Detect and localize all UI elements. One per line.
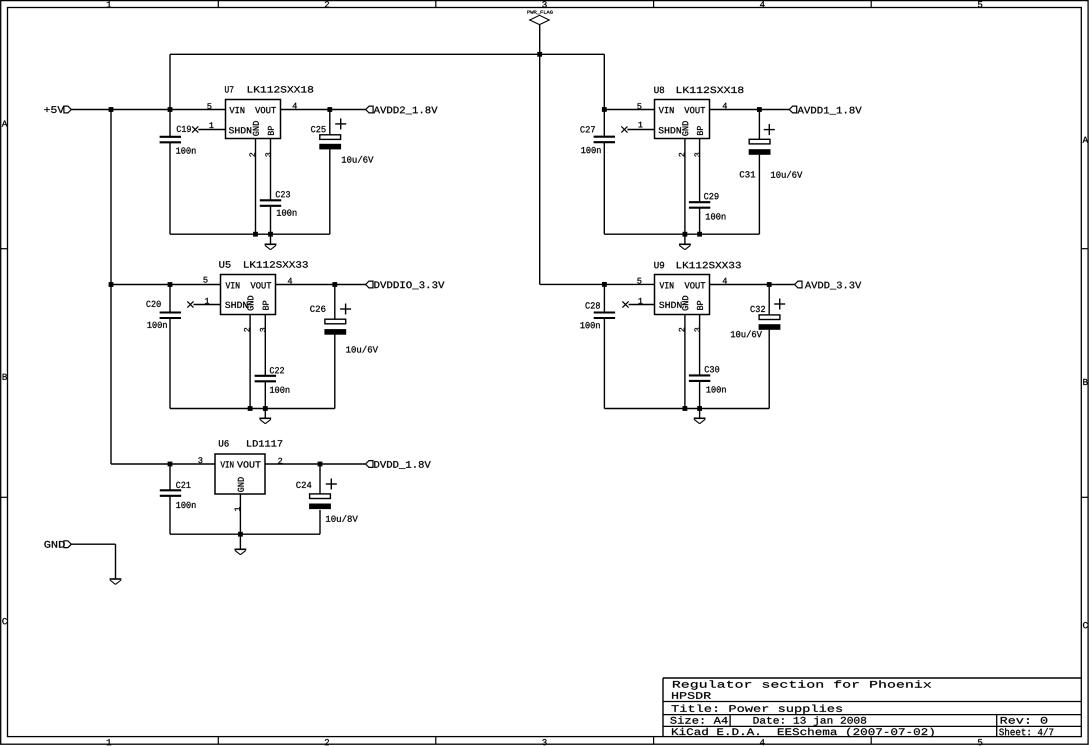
C19 reference label	[177, 126, 191, 132]
frame column numbers top	[107, 1, 983, 7]
C30 value label 100n	[706, 386, 725, 392]
pin 1 number U7	[209, 122, 213, 128]
frame row letters left	[2, 121, 8, 625]
wire top rail drop to U8	[603, 54, 605, 136]
capacitor C27	[594, 137, 615, 143]
C27 value label 100n	[581, 147, 600, 153]
ground U6	[235, 534, 247, 555]
wire PWR_FLAG drop to U9 rail	[539, 54, 541, 284]
pin 2 number U8	[679, 153, 685, 157]
pin 2 number U7	[249, 153, 255, 157]
wire U7 VOUT to AVDD2 label	[281, 109, 366, 111]
capacitor C31 (polarized)	[749, 139, 771, 155]
pin 3 number U8	[694, 153, 700, 157]
regulator U7 LK112SXX18	[226, 100, 281, 139]
C24 plus mark	[326, 479, 337, 490]
C32 reference label	[751, 306, 766, 312]
junction	[683, 232, 688, 237]
junction	[697, 232, 702, 237]
ground GND net	[110, 579, 122, 584]
ground U9	[694, 409, 706, 424]
wire U9 VOUT to AVDD label	[710, 284, 795, 286]
ground U5	[259, 409, 271, 424]
junction	[263, 406, 268, 411]
junction	[168, 462, 173, 467]
wire C30 to ground rail	[699, 381, 701, 409]
pin 4 number U5	[288, 278, 292, 284]
net label DVDD_1.8V	[366, 461, 431, 469]
wire U5 ground rail	[170, 408, 335, 410]
wire left vertical bus	[110, 110, 112, 465]
no-connect X U9 pin1	[622, 301, 628, 307]
C29 value label 100n	[706, 213, 726, 219]
C31 value label 10u/6V	[771, 171, 802, 178]
capacitor C30	[689, 375, 710, 381]
pin 5 number U8	[637, 103, 641, 109]
pin 5 number U7	[207, 103, 211, 109]
pin 4 number U9	[723, 278, 727, 284]
title block rev text	[1001, 717, 1048, 724]
frame row ticks right	[1081, 249, 1088, 498]
C25 value label 10u/6V	[342, 156, 374, 163]
C31 plus mark	[764, 124, 775, 135]
C26 reference label	[310, 306, 325, 312]
pin 5 number U9	[637, 278, 641, 284]
ground U7	[265, 234, 277, 250]
frame column ticks bottom	[218, 737, 871, 745]
wire U7 SHDN pin	[198, 129, 225, 131]
C25 plus mark	[335, 118, 346, 129]
wire U9 rail junction to C28	[603, 284, 605, 312]
U6 reference label	[219, 440, 229, 447]
regulator U8 LK112SXX18	[655, 100, 710, 139]
C20 value label 100n	[147, 322, 166, 328]
junction	[767, 282, 772, 287]
wire C25 to ground rail	[329, 149, 331, 234]
wire C27 to ground rail	[603, 142, 605, 234]
net label DVDDIO_3.3V	[366, 281, 445, 289]
junction	[268, 232, 273, 237]
C26 plus mark	[340, 304, 351, 315]
U5 reference label	[219, 261, 230, 267]
wire VOUT junction to C31	[758, 110, 760, 140]
U7 value label LK112SXX18	[248, 86, 313, 93]
title block frame	[663, 678, 1081, 737]
regulator U6 LD1117	[215, 454, 265, 494]
pin 3 number U6	[198, 457, 202, 463]
C28 reference label	[586, 302, 600, 308]
capacitor C21	[160, 490, 181, 496]
wire U9 GND pin down	[684, 315, 686, 409]
pin 4 number U8	[723, 103, 727, 109]
no-connect X U8 pin1	[621, 126, 627, 132]
wire U7 GND pin down	[255, 139, 257, 235]
power flag PWR_FLAG	[527, 11, 552, 55]
junction	[168, 107, 173, 112]
junction	[168, 282, 173, 287]
pin 2 number U5	[244, 328, 250, 332]
capacitor C23	[260, 200, 281, 206]
U9 value label LK112SXX33	[677, 262, 741, 269]
pin 2 number U6	[278, 458, 282, 464]
U8 value label LK112SXX18	[677, 87, 744, 94]
C21 reference label	[176, 482, 190, 488]
wire C28 to ground rail	[603, 318, 605, 409]
title block kicad text	[672, 728, 934, 737]
C26 value label 10u/6V	[346, 346, 378, 353]
U6 value label LD1117	[247, 440, 282, 446]
wire U6 rail	[111, 463, 215, 465]
wire U7 ground rail	[170, 233, 330, 235]
no-connect X U5 pin1	[187, 301, 193, 307]
wire C32 to ground rail	[768, 330, 770, 409]
wire U5 rail	[111, 284, 221, 286]
U8 reference label	[654, 87, 664, 94]
wire U8 SHDN pin	[627, 129, 654, 131]
wire C23 to ground rail	[270, 206, 272, 234]
C20 reference label	[146, 301, 160, 307]
wire U6 ground rail	[170, 533, 320, 535]
pin 3 number U5	[260, 328, 266, 332]
wire U5 GND pin down	[249, 315, 251, 409]
wire U5 BP pin to C22	[264, 315, 266, 376]
wire C29 to ground rail	[699, 208, 701, 235]
junction	[697, 406, 702, 411]
net label AVDD2_1.8V	[366, 106, 438, 114]
capacitor C24 (polarized)	[309, 494, 331, 509]
C22 value label 100n	[270, 387, 289, 393]
frame column numbers bottom	[107, 739, 983, 745]
regulator U5 LK112SXX33	[221, 275, 276, 315]
frame row ticks left	[1, 249, 8, 498]
C25 reference label	[311, 126, 326, 132]
title block size text	[670, 716, 727, 723]
junction	[537, 52, 542, 57]
junction	[757, 107, 762, 112]
wire C20 to ground rail	[169, 318, 171, 409]
C22 reference label	[270, 367, 284, 373]
U7 reference label	[225, 86, 233, 92]
net label AVDD1_1.8V	[789, 106, 861, 114]
pin 1 number U6	[235, 507, 240, 511]
wire C19 to ground rail	[169, 142, 171, 234]
C30 reference label	[705, 366, 720, 372]
title block sheet text	[999, 728, 1053, 735]
C23 reference label	[276, 191, 290, 197]
junction	[327, 107, 332, 112]
wire U5 VOUT to DVDDIO label	[276, 284, 366, 286]
wire C31 to ground rail	[758, 155, 760, 235]
U5 value label LK112SXX33	[244, 261, 308, 268]
ground U8	[679, 234, 691, 250]
no-connect X U7 pin1	[192, 126, 198, 132]
junction	[332, 282, 337, 287]
junction	[602, 282, 607, 287]
junction	[683, 406, 688, 411]
pin 1 number U9	[638, 298, 642, 304]
pin 3 number U7	[265, 153, 271, 157]
wire C22 to ground rail	[264, 381, 266, 408]
capacitor C20	[160, 313, 181, 319]
net label GND	[44, 541, 71, 548]
U9 reference label	[654, 262, 664, 269]
junction	[248, 406, 253, 411]
wire U6 VOUT to DVDD label	[265, 463, 366, 465]
capacitor C22	[255, 376, 276, 382]
wire U9 ground rail	[604, 408, 769, 410]
net label AVDD_3.3V	[795, 281, 862, 289]
pin 3 number U9	[694, 328, 700, 332]
wire U5 rail junction to C20	[169, 285, 171, 313]
frame row letters right	[1083, 137, 1089, 629]
C19 value label 100n	[176, 147, 195, 153]
wire U8 BP pin to C29	[699, 139, 701, 203]
junction	[109, 282, 114, 287]
title block comment1 text	[673, 680, 931, 689]
wire U8 GND pin down	[684, 139, 686, 235]
wire VOUT junction to C32	[768, 285, 770, 316]
wire U6 GND pin down	[239, 494, 241, 534]
capacitor C26 (polarized)	[324, 319, 346, 335]
wire VOUT junction to C25	[329, 110, 331, 136]
wire VOUT junction to C26	[334, 285, 336, 320]
C24 reference label	[296, 482, 311, 488]
wire top rail	[170, 53, 604, 55]
wire U9 SHDN pin	[629, 304, 655, 306]
pin 1 number U5	[205, 298, 209, 304]
junction	[253, 232, 258, 237]
junction	[238, 532, 243, 537]
pin 2 number U9	[679, 328, 685, 332]
pin 5 number U5	[203, 277, 207, 283]
junction	[109, 107, 114, 112]
wire C24 to ground rail	[319, 510, 321, 534]
net label +5V	[44, 106, 71, 113]
frame column ticks top	[218, 1, 871, 8]
C28 value label 100n	[580, 322, 599, 328]
capacitor C19	[160, 137, 181, 143]
wire U8 rail	[604, 109, 654, 111]
wire U6 rail junction to C21	[169, 464, 171, 490]
C32 plus mark	[774, 299, 785, 310]
wire C21 to ground rail	[169, 496, 171, 534]
C31 reference label	[740, 171, 755, 177]
capacitor C28	[594, 313, 615, 319]
wire U7 BP pin to C23	[270, 139, 272, 201]
pin 1 number U8	[638, 122, 642, 128]
wire GND label to ground	[71, 543, 115, 545]
wire +5V junction through C19	[169, 54, 171, 137]
capacitor C25 (polarized)	[319, 135, 341, 150]
junction	[602, 107, 607, 112]
C23 value label 100n	[277, 210, 297, 216]
wire U8 ground rail	[604, 233, 759, 235]
wire VOUT junction to C24	[319, 464, 321, 494]
wire C26 to ground rail	[334, 334, 336, 408]
C27 reference label	[580, 126, 595, 132]
title block comment2 text	[672, 692, 711, 699]
title block date text	[754, 716, 867, 725]
C32 value label 10u/6V	[731, 331, 762, 338]
C24 value label 10u/8V	[326, 515, 358, 522]
C29 reference label	[704, 193, 718, 199]
pin 4 number U7	[293, 103, 297, 109]
wire U5 SHDN pin	[194, 304, 221, 306]
title block title text	[672, 705, 843, 714]
wire U9 BP pin to C30	[699, 315, 701, 376]
regulator U9 LK112SXX33	[655, 275, 710, 315]
junction	[318, 462, 323, 467]
C21 value label 100n	[176, 502, 195, 508]
capacitor C29	[689, 202, 710, 208]
capacitor C32 (polarized)	[759, 315, 781, 330]
wire +5V rail to U7 VIN	[71, 109, 225, 111]
wire U8 VOUT to AVDD1 label	[710, 109, 790, 111]
